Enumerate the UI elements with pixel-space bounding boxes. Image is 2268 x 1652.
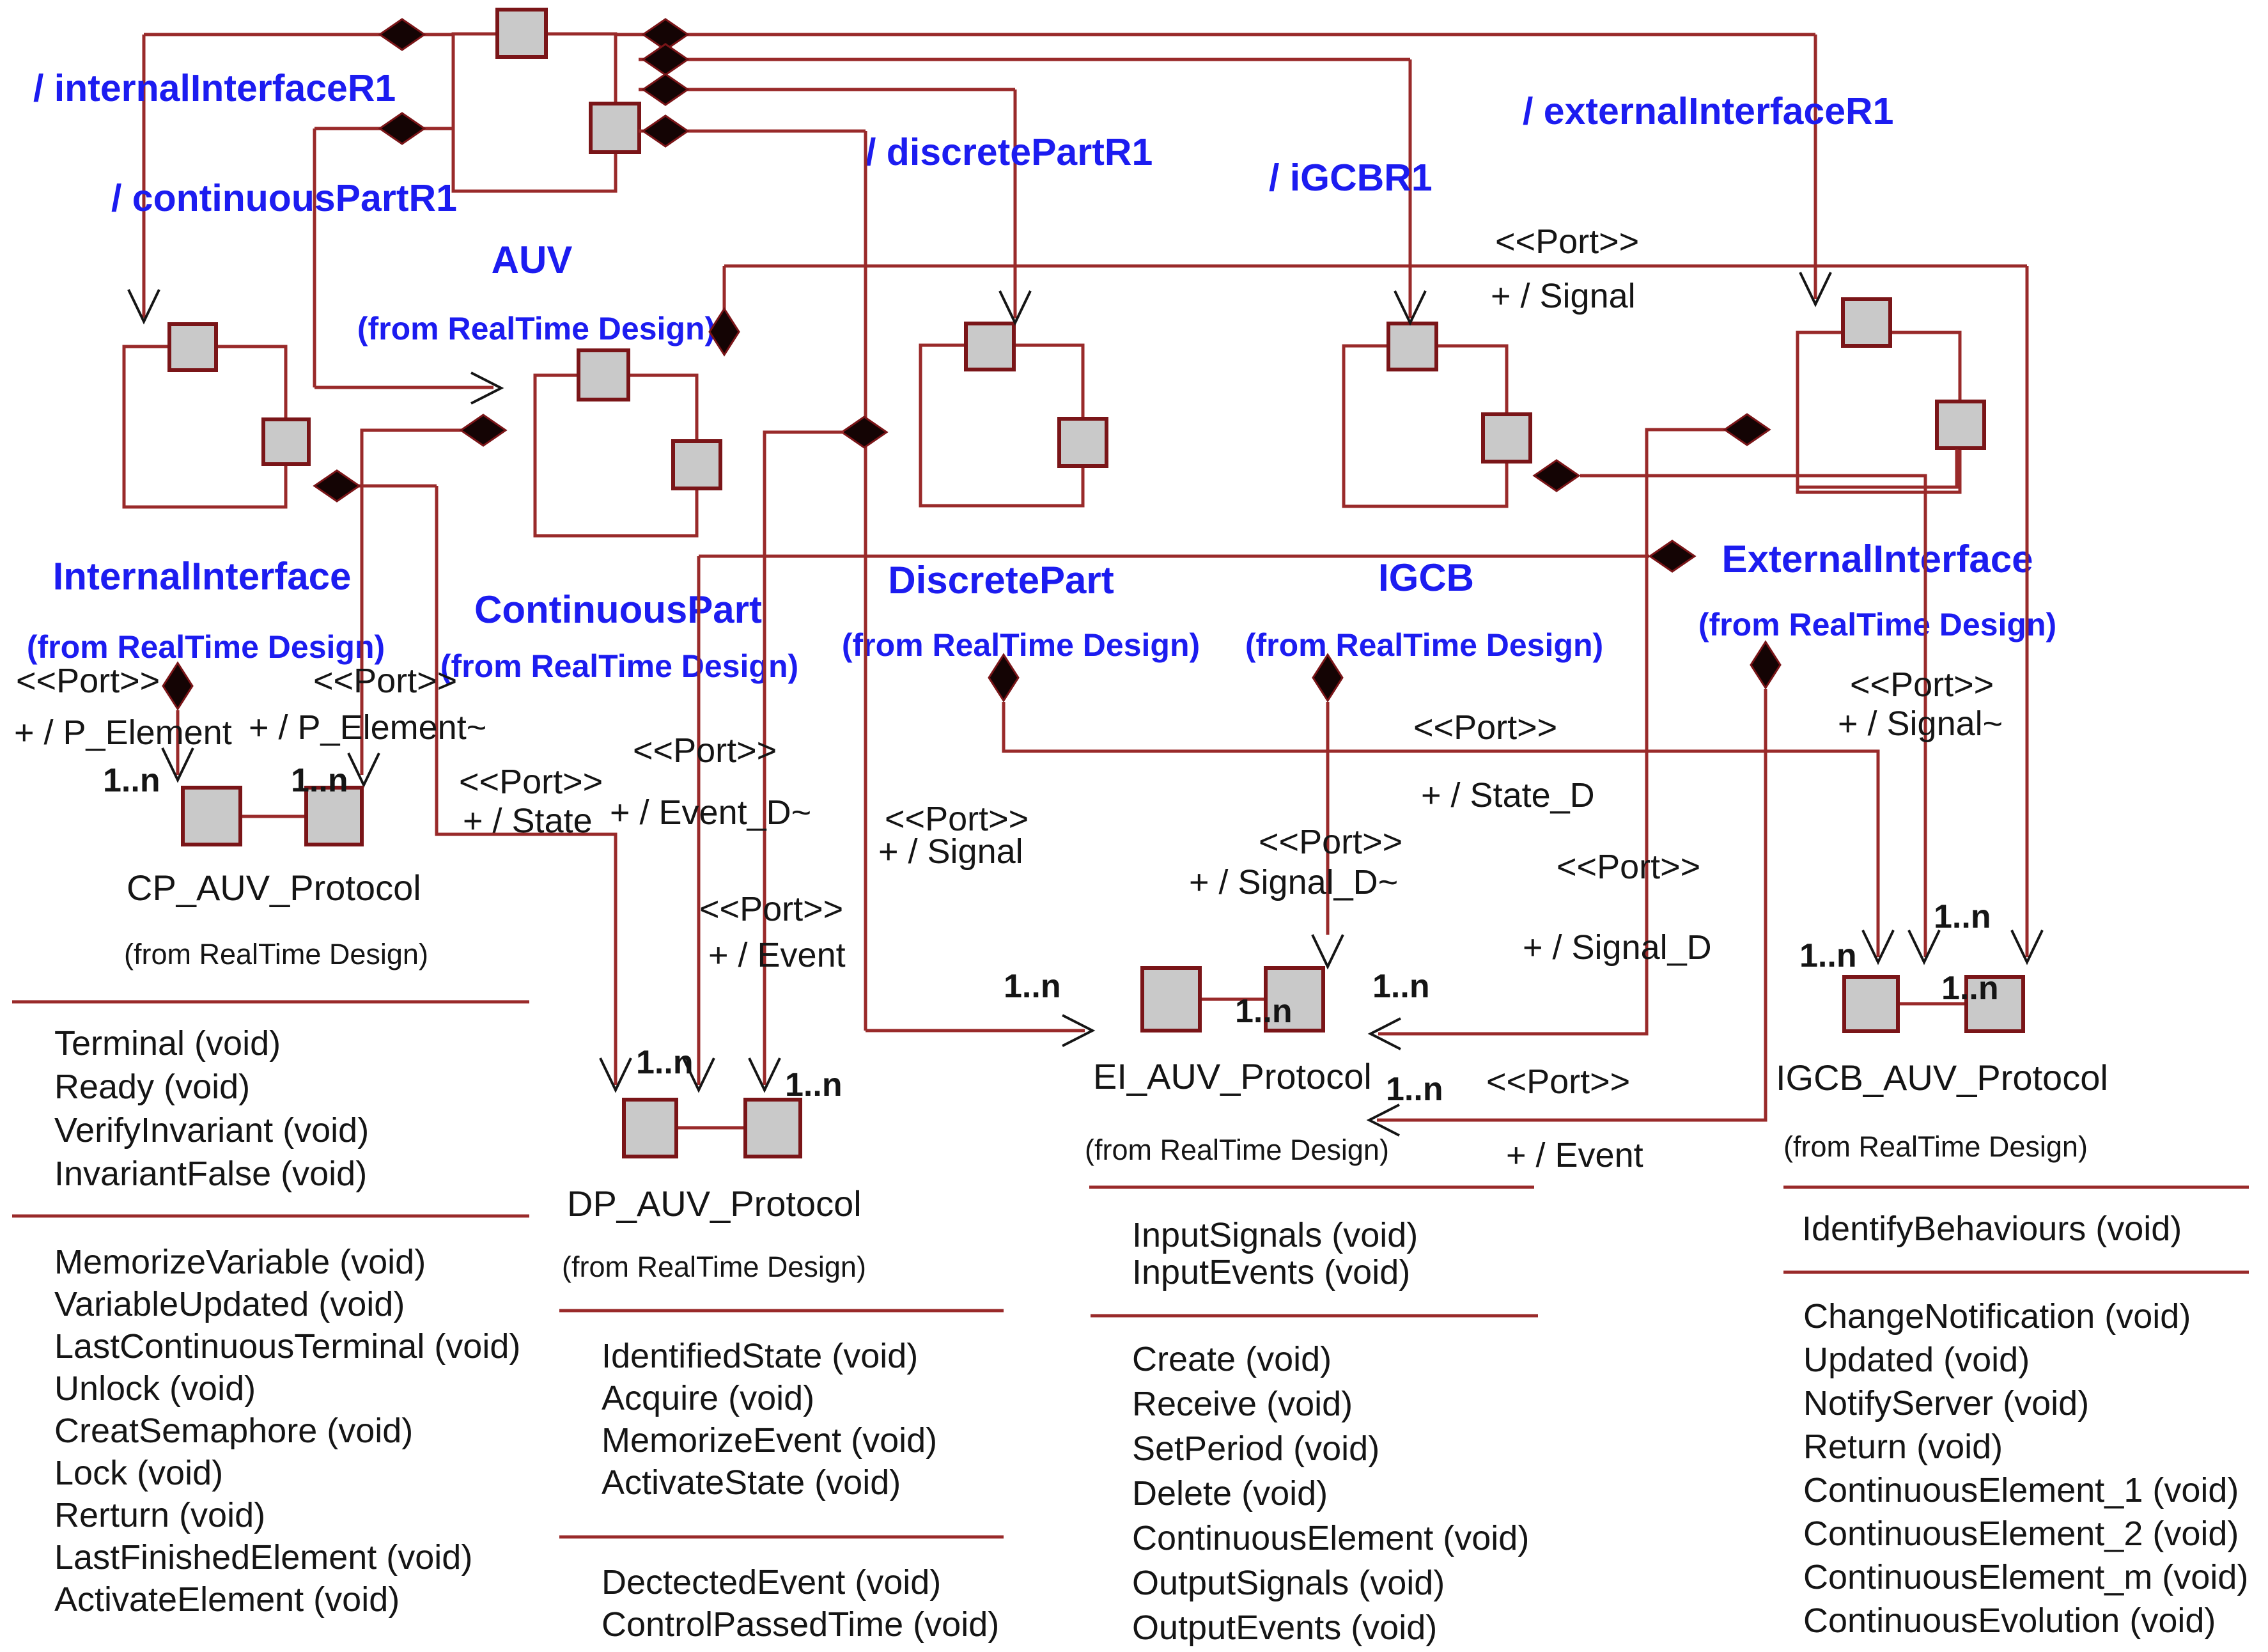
svg-text:Lock (void): Lock (void) bbox=[54, 1454, 223, 1492]
wire ContinuousPart left assoc bbox=[362, 430, 462, 775]
multiplicity 1..n CP left bbox=[103, 762, 160, 799]
CP_AUV_Protocol left square bbox=[183, 788, 240, 845]
operation VariableUpdated (void) bbox=[54, 1285, 405, 1323]
operation NotifyServer (void) bbox=[1803, 1384, 2089, 1422]
multiplicity 1..n CP right bbox=[291, 762, 348, 799]
svg-text:<<Port>>: <<Port>> bbox=[1495, 222, 1639, 261]
multiplicity 1..n IGCB middle bbox=[1941, 970, 1999, 1007]
capsule IGCB bbox=[1344, 346, 1507, 506]
svg-text:1..n: 1..n bbox=[1934, 898, 1991, 935]
capsule ExternalInterface bbox=[1798, 332, 1960, 492]
svg-text:InputEvents (void): InputEvents (void) bbox=[1132, 1253, 1410, 1291]
svg-text:IdentifiedState (void): IdentifiedState (void) bbox=[602, 1337, 918, 1375]
multiplicity 1..n IGCB left bbox=[1799, 937, 1857, 974]
wire Signal line down right side bbox=[2026, 266, 2029, 957]
arrow into EI_AUV_Protocol lower bbox=[1369, 1105, 1399, 1135]
operation Unlock (void) bbox=[54, 1369, 256, 1408]
composition diamond discretePartR1 bbox=[643, 74, 688, 105]
port on ExternalInterface right bbox=[1937, 401, 1984, 448]
CP_AUV_Protocol right square bbox=[306, 788, 362, 845]
multiplicity 1..n DP left bbox=[636, 1044, 694, 1081]
svg-text:+ / Signal_D: + / Signal_D bbox=[1523, 928, 1712, 967]
svg-text:(from RealTime Design): (from RealTime Design) bbox=[1085, 1134, 1389, 1166]
svg-text:MemorizeEvent (void): MemorizeEvent (void) bbox=[602, 1421, 937, 1460]
wire AUV to EI_AUV_Protocol long vertical bbox=[864, 131, 867, 1031]
composition diamond IGCB bottom bbox=[1313, 655, 1342, 701]
label ContinuousPart from RealTime Design bbox=[440, 648, 798, 684]
label Port stereotype P_Element bbox=[16, 662, 160, 700]
label EI_AUV_Protocol bbox=[1093, 1056, 1372, 1096]
wire ExternalInterface to EI_AUV_Protocol bbox=[1377, 689, 1766, 1120]
svg-text:1..n: 1..n bbox=[785, 1066, 843, 1103]
multiplicity 1..n EI right bbox=[1372, 968, 1430, 1005]
operation Return (void) bbox=[1803, 1428, 2003, 1466]
DP_AUV_Protocol squares connector bbox=[676, 1126, 745, 1130]
operation VerifyInvariant (void) bbox=[54, 1111, 369, 1149]
composition diamond below AUV label bbox=[710, 309, 739, 355]
wire continuousPartR1 vertical bbox=[313, 129, 316, 387]
label internalInterfaceR1 bbox=[33, 67, 396, 109]
wire IGCB to EI_AUV_Protocol right square bbox=[1326, 702, 1330, 935]
label + / Signal~ bbox=[1838, 705, 2003, 743]
svg-text:<<Port>>: <<Port>> bbox=[1850, 666, 1994, 704]
svg-text:Create (void): Create (void) bbox=[1132, 1340, 1332, 1378]
svg-text:InputSignals (void): InputSignals (void) bbox=[1132, 1216, 1418, 1254]
port on AUV right bbox=[591, 104, 639, 152]
svg-text:CreatSemaphore (void): CreatSemaphore (void) bbox=[54, 1412, 413, 1450]
operation Receive (void) bbox=[1132, 1385, 1353, 1423]
DP_AUV_Protocol separator 1 bbox=[559, 1309, 1004, 1313]
port on AUV top bbox=[497, 10, 546, 57]
svg-text:Ready (void): Ready (void) bbox=[54, 1068, 250, 1106]
arrow into DP_AUV_Protocol middle bbox=[683, 1058, 714, 1090]
svg-text:Unlock (void): Unlock (void) bbox=[54, 1369, 256, 1408]
wire Event_D horizontal to ExternalInterface label bbox=[699, 555, 1649, 558]
svg-text:VariableUpdated (void): VariableUpdated (void) bbox=[54, 1285, 405, 1323]
label InternalInterface from RealTime Design bbox=[27, 629, 385, 665]
wire internalInterfaceR1 vertical bbox=[143, 35, 146, 318]
label ExternalInterface bbox=[1722, 538, 2033, 581]
wire AUV to EI_AUV_Protocol horizontal bbox=[639, 130, 866, 133]
label Port stereotype State bbox=[459, 763, 603, 801]
label + / State bbox=[463, 802, 593, 840]
label ExternalInterface from RealTime Design bbox=[1698, 607, 2056, 643]
operation ContinuousElement_2 (void) bbox=[1803, 1515, 2239, 1553]
label + / Signal_D bbox=[1523, 928, 1712, 967]
operation OutputSignals (void) bbox=[1132, 1564, 1445, 1602]
svg-text:Receive (void): Receive (void) bbox=[1132, 1385, 1353, 1423]
label AUV bbox=[492, 238, 573, 281]
composition diamond near ExternalInterface label bbox=[1650, 541, 1695, 572]
operation ChangeNotification (void) bbox=[1803, 1297, 2191, 1336]
operation IdentifiedState (void) bbox=[602, 1337, 918, 1375]
wire IGCB right port assoc bbox=[1580, 476, 1925, 957]
multiplicity 1..n EI left bbox=[1004, 968, 1061, 1005]
wire down from InternalInterface assoc bbox=[437, 486, 616, 1085]
svg-text:ChangeNotification (void): ChangeNotification (void) bbox=[1803, 1297, 2191, 1336]
svg-text:ActivateElement (void): ActivateElement (void) bbox=[54, 1580, 400, 1619]
svg-text:/ internalInterfaceR1: / internalInterfaceR1 bbox=[33, 67, 396, 109]
operation ActivateState (void) bbox=[602, 1463, 901, 1502]
svg-text:<<Port>>: <<Port>> bbox=[313, 662, 457, 700]
svg-text:+ / Signal~: + / Signal~ bbox=[1838, 705, 2003, 743]
composition diamond InternalInterface right bbox=[315, 471, 359, 501]
svg-text:1..n: 1..n bbox=[1372, 968, 1430, 1005]
svg-text:ContinuousElement_m (void): ContinuousElement_m (void) bbox=[1803, 1558, 2248, 1596]
EI_AUV_Protocol right square bbox=[1266, 968, 1323, 1031]
svg-text:EI_AUV_Protocol: EI_AUV_Protocol bbox=[1093, 1056, 1372, 1096]
svg-text:+ / Signal: + / Signal bbox=[878, 832, 1023, 871]
wire externalInterfaceR1 horizontal bbox=[616, 33, 1815, 36]
composition diamond externalInterfaceR1 bbox=[643, 19, 688, 50]
operation SetPeriod (void) bbox=[1132, 1430, 1379, 1468]
operation InputEvents (void) bbox=[1132, 1253, 1410, 1291]
svg-text:Updated (void): Updated (void) bbox=[1803, 1341, 2030, 1379]
arrow into ContinuousPart left edge bbox=[471, 373, 501, 403]
label + / P_Element bbox=[14, 713, 232, 752]
operation Delete (void) bbox=[1132, 1474, 1328, 1513]
svg-text:ControlPassedTime (void): ControlPassedTime (void) bbox=[602, 1605, 999, 1644]
arrow into IGCB top port bbox=[1395, 291, 1425, 323]
label Port stereotype State_D bbox=[1413, 708, 1557, 747]
label Port stereotype Event_D~ bbox=[633, 731, 777, 770]
svg-text:Delete (void): Delete (void) bbox=[1132, 1474, 1328, 1513]
svg-text:1..n: 1..n bbox=[1799, 937, 1857, 974]
svg-text:+ / Signal_D~: + / Signal_D~ bbox=[1189, 863, 1398, 901]
composition diamond IGCB right bbox=[1534, 460, 1579, 491]
composition diamond DiscretePart bottom bbox=[989, 655, 1018, 701]
svg-text:1..n: 1..n bbox=[636, 1044, 694, 1081]
arrow into IGCB_AUV_Protocol middle bbox=[1909, 930, 1939, 962]
svg-text:<<Port>>: <<Port>> bbox=[459, 763, 603, 801]
arrow into InternalInterface top port bbox=[128, 290, 159, 322]
label Port stereotype top right bbox=[1495, 222, 1639, 261]
svg-text:DP_AUV_Protocol: DP_AUV_Protocol bbox=[567, 1183, 862, 1224]
wire DiscretePart to IGCB_AUV_Protocol bbox=[1004, 702, 1878, 957]
svg-text:LastFinishedElement (void): LastFinishedElement (void) bbox=[54, 1538, 472, 1577]
composition diamond ContinuousPart left bbox=[461, 415, 506, 446]
svg-text:Rerturn (void): Rerturn (void) bbox=[54, 1496, 265, 1534]
composition diamond ExternalInterface bottom bbox=[1751, 642, 1780, 688]
composition diamond continuousPartR1 bbox=[380, 113, 424, 144]
port on DiscretePart right bbox=[1059, 419, 1107, 466]
wire hook to ExternalInterface right port bbox=[1798, 449, 1957, 487]
operation Lock (void) bbox=[54, 1454, 223, 1492]
arrow into CP_AUV_Protocol left square bbox=[162, 748, 193, 780]
svg-text:(from RealTime Design): (from RealTime Design) bbox=[842, 627, 1200, 663]
operation ControlPassedTime (void) bbox=[602, 1605, 999, 1644]
svg-text:(from RealTime Design): (from RealTime Design) bbox=[124, 938, 428, 970]
label InternalInterface bbox=[53, 555, 352, 598]
wire iGCBR1 horizontal bbox=[639, 58, 1410, 61]
EI_AUV_Protocol squares connector bbox=[1200, 998, 1266, 1001]
svg-text:ContinuousEvolution (void): ContinuousEvolution (void) bbox=[1803, 1601, 2216, 1640]
multiplicity 1..n DP right bbox=[785, 1066, 843, 1103]
label AUV from RealTime Design bbox=[357, 311, 715, 347]
svg-text:+ / Event: + / Event bbox=[1506, 1136, 1643, 1174]
svg-text:IGCB: IGCB bbox=[1378, 556, 1474, 599]
svg-text:NotifyServer (void): NotifyServer (void) bbox=[1803, 1384, 2089, 1422]
label discretePartR1 bbox=[866, 131, 1153, 173]
svg-text:ContinuousElement_1 (void): ContinuousElement_1 (void) bbox=[1803, 1471, 2239, 1509]
arrow into DP_AUV_Protocol left square bbox=[600, 1058, 631, 1090]
wire discretePartR1 vertical bbox=[1014, 90, 1017, 318]
operation CreatSemaphore (void) bbox=[54, 1412, 413, 1450]
label iGCBR1 bbox=[1269, 157, 1433, 199]
svg-text:VerifyInvariant (void): VerifyInvariant (void) bbox=[54, 1111, 369, 1149]
svg-text:+ / State: + / State bbox=[463, 802, 593, 840]
svg-text:+ / P_Element~: + / P_Element~ bbox=[249, 708, 486, 747]
label + / Event EI bbox=[1506, 1136, 1643, 1174]
svg-text:(from RealTime Design): (from RealTime Design) bbox=[27, 629, 385, 665]
operation MemorizeVariable (void) bbox=[54, 1243, 426, 1281]
port on ContinuousPart right bbox=[673, 441, 720, 488]
label ContinuousPart bbox=[474, 588, 762, 631]
multiplicity 1..n IGCB top bbox=[1934, 898, 1991, 935]
operation Updated (void) bbox=[1803, 1341, 2030, 1379]
label + / Signal top right bbox=[1491, 277, 1636, 315]
arrow into EI_AUV_Protocol left square bbox=[1062, 1015, 1092, 1046]
svg-text:InternalInterface: InternalInterface bbox=[53, 555, 352, 598]
svg-text:Acquire (void): Acquire (void) bbox=[602, 1379, 814, 1417]
arrow into EI_AUV_Protocol right side bbox=[1371, 1018, 1401, 1049]
svg-text:+ / Event_D~: + / Event_D~ bbox=[610, 793, 811, 832]
port on ExternalInterface top bbox=[1843, 299, 1890, 346]
svg-text:/ discretePartR1: / discretePartR1 bbox=[866, 131, 1153, 173]
composition diamond internalInterfaceR1 bbox=[380, 19, 424, 50]
port on DiscretePart top bbox=[966, 323, 1014, 370]
port on InternalInterface right bbox=[263, 419, 309, 464]
DP_AUV_Protocol right square bbox=[745, 1100, 800, 1157]
operation Acquire (void) bbox=[602, 1379, 814, 1417]
wire from junction diamond to DP right bbox=[765, 432, 844, 1085]
svg-text:ExternalInterface: ExternalInterface bbox=[1722, 538, 2033, 581]
CP_AUV_Protocol squares connector bbox=[240, 815, 306, 818]
svg-text:<<Port>>: <<Port>> bbox=[699, 890, 843, 928]
svg-text:DectectedEvent (void): DectectedEvent (void) bbox=[602, 1563, 941, 1601]
composition diamond ExternalInterface left bbox=[1725, 414, 1769, 445]
svg-text:<<Port>>: <<Port>> bbox=[1486, 1063, 1630, 1101]
label Port stereotype Event bbox=[699, 890, 843, 928]
operation ContinuousElement_m (void) bbox=[1803, 1558, 2248, 1596]
wire InternalInterface to CP_AUV_Protocol bbox=[176, 710, 180, 775]
svg-text:LastContinuousTerminal (void): LastContinuousTerminal (void) bbox=[54, 1327, 520, 1366]
svg-text:Return (void): Return (void) bbox=[1803, 1428, 2003, 1466]
operation MemorizeEvent (void) bbox=[602, 1421, 937, 1460]
composition diamond InternalInterface bottom bbox=[163, 663, 192, 709]
svg-text:1..n: 1..n bbox=[103, 762, 160, 799]
svg-text:/ iGCBR1: / iGCBR1 bbox=[1269, 157, 1433, 199]
label DP_AUV_Protocol bbox=[567, 1183, 862, 1224]
operation Create (void) bbox=[1132, 1340, 1332, 1378]
operation Rerturn (void) bbox=[54, 1496, 265, 1534]
svg-text:DiscretePart: DiscretePart bbox=[888, 559, 1114, 602]
label Port stereotype Signal_D~ bbox=[1259, 823, 1402, 861]
wire externalInterfaceR1 vertical bbox=[1814, 35, 1817, 299]
operation LastFinishedElement (void) bbox=[54, 1538, 472, 1577]
label DiscretePart bbox=[888, 559, 1114, 602]
label continuousPartR1 bbox=[111, 177, 457, 219]
svg-text:MemorizeVariable (void): MemorizeVariable (void) bbox=[54, 1243, 426, 1281]
composition diamond iGCBR1 bbox=[643, 44, 688, 75]
capsule InternalInterface bbox=[124, 347, 286, 507]
svg-text:<<Port>>: <<Port>> bbox=[1413, 708, 1557, 747]
svg-text:ContinuousElement_2 (void): ContinuousElement_2 (void) bbox=[1803, 1515, 2239, 1553]
label IGCB_AUV_Protocol bbox=[1776, 1057, 2108, 1098]
arrow into DiscretePart top port bbox=[1000, 291, 1030, 323]
capsule DiscretePart bbox=[920, 345, 1083, 506]
label CP_AUV_Protocol bbox=[127, 868, 421, 908]
svg-text:ActivateState (void): ActivateState (void) bbox=[602, 1463, 901, 1502]
CP_AUV_Protocol separator 1 bbox=[12, 1001, 529, 1004]
operation LastContinuousTerminal (void) bbox=[54, 1327, 520, 1366]
label Port stereotype Signal_D bbox=[1557, 848, 1700, 886]
wire Event_D vertical bbox=[697, 556, 701, 1085]
svg-text:+ / Event: + / Event bbox=[708, 936, 846, 974]
label IGCB from RealTime Design bbox=[1783, 1130, 2088, 1163]
label + / P_Element~ bbox=[249, 708, 486, 747]
operation ContinuousElement (void) bbox=[1132, 1519, 1529, 1557]
EI_AUV_Protocol separator 2 bbox=[1091, 1314, 1538, 1318]
svg-text:1..n: 1..n bbox=[291, 762, 348, 799]
label + / Signal DP bbox=[878, 832, 1023, 871]
svg-text:1..n: 1..n bbox=[1386, 1071, 1443, 1108]
wire discretePartR1 horizontal bbox=[639, 88, 1015, 91]
multiplicity 1..n EI lower bbox=[1386, 1071, 1443, 1108]
svg-text:<<Port>>: <<Port>> bbox=[1259, 823, 1402, 861]
wire to EI_AUV_Protocol horizontal2 bbox=[866, 1029, 1085, 1032]
DP_AUV_Protocol left square bbox=[624, 1100, 676, 1157]
arrow into DP_AUV_Protocol right square bbox=[749, 1058, 780, 1090]
svg-text:(from RealTime Design): (from RealTime Design) bbox=[1245, 627, 1603, 663]
label Port stereotype Signal~ bbox=[1850, 666, 1994, 704]
label Port stereotype DP Signal bbox=[885, 800, 1029, 838]
operation DectectedEvent (void) bbox=[602, 1563, 941, 1601]
svg-text:1..n: 1..n bbox=[1235, 993, 1293, 1030]
arrow into CP_AUV_Protocol right square bbox=[348, 753, 379, 785]
port on IGCB right bbox=[1483, 414, 1530, 462]
wire continuousPartR1 horizontal2 bbox=[315, 386, 493, 389]
label Port stereotype EI Event bbox=[1486, 1063, 1630, 1101]
svg-text:(from RealTime Design): (from RealTime Design) bbox=[1698, 607, 2056, 643]
wire Signal port long horizontal bbox=[724, 265, 2027, 268]
svg-text:IGCB_AUV_Protocol: IGCB_AUV_Protocol bbox=[1776, 1057, 2108, 1098]
arrow into ExternalInterface top port bbox=[1800, 272, 1831, 304]
wire from InternalInterface right port bbox=[357, 485, 437, 488]
IGCB_AUV_Protocol squares connector bbox=[1898, 1002, 1966, 1006]
junction diamond left of DiscretePart bbox=[842, 417, 887, 448]
svg-text:IdentifyBehaviours (void): IdentifyBehaviours (void) bbox=[1802, 1210, 2182, 1248]
EI_AUV_Protocol separator 1 bbox=[1089, 1186, 1534, 1189]
svg-text:1..n: 1..n bbox=[1004, 968, 1061, 1005]
wire ExternalInterface left assoc bbox=[1378, 430, 1725, 1034]
EI_AUV_Protocol left square bbox=[1142, 968, 1200, 1031]
operation ContinuousEvolution (void) bbox=[1803, 1601, 2216, 1640]
CP_AUV_Protocol separator 2 bbox=[12, 1215, 529, 1218]
svg-text:+ / P_Element: + / P_Element bbox=[14, 713, 232, 752]
label Port stereotype P_Element~ bbox=[313, 662, 457, 700]
arrow into EI_AUV_Protocol right square bbox=[1312, 935, 1343, 967]
operation OutputEvents (void) bbox=[1132, 1609, 1437, 1647]
svg-text:InvariantFalse (void): InvariantFalse (void) bbox=[54, 1155, 367, 1193]
wire continuousPartR1 horizontal bbox=[315, 127, 453, 130]
label CP from RealTime Design bbox=[124, 938, 428, 970]
capsule ContinuousPart bbox=[535, 375, 697, 536]
svg-text:(from RealTime Design): (from RealTime Design) bbox=[1783, 1130, 2088, 1163]
svg-text:ContinuousPart: ContinuousPart bbox=[474, 588, 762, 631]
wire iGCBR1 vertical bbox=[1409, 59, 1412, 318]
label + / Event DP bbox=[708, 936, 846, 974]
label IGCB bbox=[1378, 556, 1474, 599]
svg-text:<<Port>>: <<Port>> bbox=[1557, 848, 1700, 886]
svg-text:(from RealTime Design): (from RealTime Design) bbox=[440, 648, 798, 684]
operation ActivateElement (void) bbox=[54, 1580, 400, 1619]
label IGCB from RealTime Design bbox=[1245, 627, 1603, 663]
DP_AUV_Protocol separator 2 bbox=[559, 1536, 1004, 1539]
composition diamond AUV right port bbox=[643, 116, 688, 146]
svg-text:OutputEvents (void): OutputEvents (void) bbox=[1132, 1609, 1437, 1647]
label + / Event_D~ bbox=[610, 793, 811, 832]
port on InternalInterface top bbox=[169, 324, 216, 370]
label DiscretePart from RealTime Design bbox=[842, 627, 1200, 663]
capsule AUV bbox=[453, 34, 616, 191]
label + / Signal_D~ bbox=[1189, 863, 1398, 901]
svg-text:ContinuousElement (void): ContinuousElement (void) bbox=[1132, 1519, 1529, 1557]
port on IGCB top bbox=[1388, 323, 1436, 370]
svg-text:<<Port>>: <<Port>> bbox=[16, 662, 160, 700]
operation Terminal (void) bbox=[54, 1024, 281, 1063]
label + / State_D bbox=[1421, 776, 1595, 814]
wire Signal port line vertical top bbox=[723, 266, 726, 309]
multiplicity 1..n EI middle bbox=[1235, 993, 1293, 1030]
arrow into IGCB_AUV_Protocol right square outer bbox=[2012, 930, 2042, 962]
operation InputSignals (void) bbox=[1132, 1216, 1418, 1254]
operation InvariantFalse (void) bbox=[54, 1155, 367, 1193]
IGCB_AUV_Protocol separator 2 bbox=[1783, 1271, 2249, 1274]
label EI from RealTime Design bbox=[1085, 1134, 1389, 1166]
IGCB_AUV_Protocol separator 1 bbox=[1783, 1186, 2249, 1189]
arrow into IGCB_AUV_Protocol left square bbox=[1863, 930, 1893, 962]
operation Ready (void) bbox=[54, 1068, 250, 1106]
svg-text:Terminal (void): Terminal (void) bbox=[54, 1024, 281, 1063]
svg-text:+ / Signal: + / Signal bbox=[1491, 277, 1636, 315]
IGCB_AUV_Protocol right square bbox=[1966, 977, 2023, 1031]
svg-text:/ continuousPartR1: / continuousPartR1 bbox=[111, 177, 457, 219]
port on ContinuousPart top bbox=[579, 350, 628, 400]
IGCB_AUV_Protocol left square bbox=[1844, 977, 1898, 1031]
svg-text:CP_AUV_Protocol: CP_AUV_Protocol bbox=[127, 868, 421, 908]
svg-text:+ / State_D: + / State_D bbox=[1421, 776, 1595, 814]
svg-text:OutputSignals (void): OutputSignals (void) bbox=[1132, 1564, 1445, 1602]
svg-text:AUV: AUV bbox=[492, 238, 573, 281]
operation IdentifyBehaviours (void) bbox=[1802, 1210, 2182, 1248]
wire internalInterfaceR1 horizontal bbox=[144, 33, 453, 36]
svg-text:(from RealTime Design): (from RealTime Design) bbox=[562, 1251, 866, 1283]
operation ContinuousElement_1 (void) bbox=[1803, 1471, 2239, 1509]
label externalInterfaceR1 bbox=[1523, 90, 1893, 132]
svg-text:<<Port>>: <<Port>> bbox=[633, 731, 777, 770]
label DP from RealTime Design bbox=[562, 1251, 866, 1283]
svg-text:1..n: 1..n bbox=[1941, 970, 1999, 1007]
svg-text:/ externalInterfaceR1: / externalInterfaceR1 bbox=[1523, 90, 1893, 132]
svg-text:SetPeriod (void): SetPeriod (void) bbox=[1132, 1430, 1379, 1468]
svg-text:(from RealTime Design): (from RealTime Design) bbox=[357, 311, 715, 347]
